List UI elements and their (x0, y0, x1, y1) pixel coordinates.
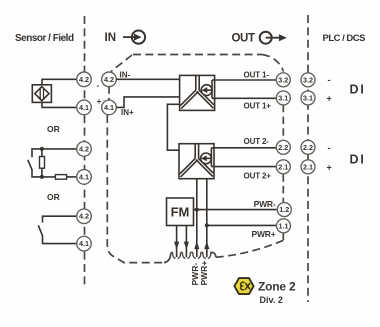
icon IN arrow-in-circle (123, 30, 145, 43)
svg-text:4.1: 4.1 (79, 103, 89, 112)
wire daisy-chain U1 to U2 (167, 104, 179, 150)
svg-text:OUT: OUT (232, 33, 255, 45)
svg-text:4.2: 4.2 (104, 75, 114, 84)
svg-text:1.2: 1.2 (279, 205, 289, 214)
svg-text:DI: DI (350, 83, 366, 97)
terminal 3.1 m (276, 91, 290, 105)
svg-text:OUT 1+: OUT 1+ (244, 102, 272, 111)
right terminal circles column module (276, 73, 291, 233)
isolator U2 output bracket (210, 148, 212, 167)
svg-text:3.1: 3.1 (278, 93, 288, 102)
wire IN- to isolator U1 (116, 78, 179, 80)
junction dot S2 top (40, 147, 44, 151)
arrowhead up PWR+ feed (204, 241, 209, 249)
junction dot PWR- (195, 208, 199, 212)
wire U2 power feed left (down to PWR- rail) (196, 179, 198, 253)
wire OUT2- to terminal 2.2 (211, 147, 276, 149)
terminal 4.2 b (77, 142, 92, 157)
svg-text:IN-: IN- (120, 70, 131, 79)
svg-text:4.1: 4.1 (79, 172, 89, 181)
svg-text:DI: DI (350, 153, 366, 167)
svg-text:PWR+: PWR+ (199, 261, 209, 286)
svg-text:Zone 2: Zone 2 (258, 280, 296, 294)
terminal 4.2 a (77, 72, 92, 87)
wire IN+ to isolator U1 (with jog) (116, 97, 179, 108)
terminal 2.1 m (276, 160, 290, 174)
svg-text:OUT 2-: OUT 2- (244, 137, 270, 146)
Ex hexagon (234, 278, 253, 294)
isolator U1 output circle-arrow (201, 85, 212, 96)
resistor R2 (series, horizontal) (55, 175, 66, 180)
terminal 3.1 p (301, 91, 315, 105)
switch S3 blade (38, 225, 42, 236)
svg-text:IN+: IN+ (121, 108, 134, 117)
svg-text:+: + (97, 96, 102, 106)
module boundary bottom-right hook (210, 253, 216, 258)
terminal 2.2 m (276, 140, 290, 154)
wire S1 top to terminal 4.2 (42, 79, 77, 85)
module boundary top-left diagonal (111, 55, 132, 72)
left terminal circles column A (77, 72, 92, 251)
terminal 4.1 a (77, 100, 92, 115)
FM box (167, 198, 194, 226)
terminal 2.2 p (301, 140, 315, 154)
left dashed separator line (84, 16, 86, 286)
svg-text:1.1: 1.1 (279, 221, 289, 230)
svg-text:4.1: 4.1 (104, 103, 114, 112)
terminal 1.1 (277, 219, 291, 233)
svg-text:-: - (328, 75, 331, 85)
svg-text:OUT 2+: OUT 2+ (244, 172, 272, 181)
module boundary top-right curve (262, 55, 284, 72)
wire FM right output down (185, 226, 187, 250)
module boundary left edge (108, 87, 110, 100)
svg-text:+: + (327, 94, 332, 104)
module boundary right edge dashes between terminals (282, 105, 284, 140)
svg-text:PWR-: PWR- (254, 199, 276, 209)
isolator U1 output bracket (211, 80, 213, 98)
terminal 4.2 c (77, 209, 92, 224)
resistor R1 (parallel, vertical) (41, 149, 43, 177)
terminal 2.1 p (301, 160, 315, 174)
module input terminal 4.1 (102, 100, 117, 115)
wire OUT1+ to terminal 3.1 (212, 97, 276, 99)
terminal 3.2 p (301, 73, 315, 87)
wire S3 bottom (43, 236, 77, 244)
svg-text:OR: OR (47, 124, 60, 134)
svg-text:OUT 1-: OUT 1- (244, 71, 270, 80)
wire stubs through grommets (177, 248, 207, 257)
arrowhead down FM2 (184, 242, 189, 250)
module boundary bottom-right dashed curve to terminal 1.1 (216, 240, 285, 258)
isolator U1 (180, 75, 215, 110)
icon OUT arrow-out-of-circle (260, 32, 287, 44)
wire FM left output down (176, 226, 178, 250)
junction dot PWR+ (205, 223, 209, 227)
svg-text:3.2: 3.2 (278, 75, 288, 84)
module dashed boundary: top edge (133, 54, 262, 56)
svg-text:3.1: 3.1 (303, 93, 313, 102)
arrowhead down FM1 (174, 242, 179, 250)
wire OUT2+ to terminal 2.1 (211, 166, 276, 168)
svg-text:4.2: 4.2 (79, 144, 89, 153)
svg-text:3.2: 3.2 (303, 75, 313, 84)
arrowhead up PWR- feed (194, 241, 199, 249)
right dashed separator line (307, 15, 309, 302)
svg-text:2.1: 2.1 (278, 162, 288, 171)
switch S2 bottom stub and wire (32, 170, 55, 177)
svg-text:OR: OR (47, 192, 60, 202)
terminal 1.2 (277, 203, 291, 217)
wire PWR+ rail to terminal 1.1 (207, 224, 277, 226)
terminal 4.1 c (77, 236, 92, 251)
svg-text:2.1: 2.1 (303, 162, 313, 171)
svg-text:Sensor / Field: Sensor / Field (15, 33, 74, 44)
svg-text:4.1: 4.1 (79, 239, 89, 248)
isolator U2 (179, 144, 214, 179)
svg-text:4.2: 4.2 (79, 75, 89, 84)
module boundary bottom-left hook to bump line (164, 253, 171, 263)
wire S2 top (32, 149, 77, 157)
boundary bump line with grommets (171, 252, 213, 258)
isolator U2 output circle-arrow (201, 153, 212, 164)
module input terminal 4.2 (102, 72, 117, 87)
wire R2 to terminal 4.1 (67, 176, 77, 178)
terminal 4.1 b (77, 170, 92, 185)
svg-text:PWR+: PWR+ (252, 229, 276, 239)
wire U2 power feed right (down to PWR+ rail) (206, 179, 208, 253)
right terminal circles column PLC (301, 73, 315, 174)
svg-text:FM: FM (171, 205, 190, 220)
svg-text:2.2: 2.2 (303, 143, 313, 152)
svg-text:Div. 2: Div. 2 (260, 295, 283, 305)
sensor S1 proximity (NAMUR) (32, 85, 51, 103)
terminal 3.2 m (276, 73, 290, 87)
wire OUT1- to terminal 3.2 (212, 79, 276, 81)
svg-text:+: + (327, 163, 332, 173)
wire FM to PWR- rail (194, 209, 277, 211)
wire S3 top (43, 216, 77, 222)
svg-text:-: - (328, 143, 331, 153)
svg-text:PLC / DCS: PLC / DCS (323, 33, 366, 44)
svg-text:IN: IN (105, 32, 117, 44)
switch S2 blade (28, 160, 32, 170)
svg-text:2.2: 2.2 (278, 143, 288, 152)
svg-text:-: - (97, 80, 100, 90)
svg-text:4.2: 4.2 (79, 212, 89, 221)
wire S1 bottom to terminal 4.1 (42, 102, 77, 107)
junction dot S2 bottom (40, 175, 44, 179)
